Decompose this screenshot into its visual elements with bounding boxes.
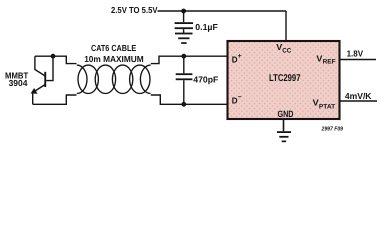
svg-text:CC: CC (282, 48, 291, 55)
ground (top, below C1) (175, 33, 193, 44)
collector lead (35, 56, 45, 76)
wire: D+ line from transistor to cable (35, 56, 77, 63)
transistor Q1 MMBT3904 (diode-connected NPN) (31, 56, 53, 104)
node: D+ junction dot (181, 54, 186, 59)
svg-text:2997 F09: 2997 F09 (321, 125, 344, 132)
svg-text:+: + (238, 53, 242, 60)
wire: cable to D- pin (151, 95, 227, 104)
svg-text:10m MAXIMUM: 10m MAXIMUM (84, 54, 144, 64)
wire: supply rail down to VCC pin (285, 11, 287, 41)
svg-text:470pF: 470pF (193, 75, 218, 85)
pin label VPTAT (313, 98, 336, 111)
svg-text:1.8V: 1.8V (347, 48, 364, 58)
label MMBT 3904 (5, 70, 29, 87)
base bar (44, 72, 46, 87)
node: D- junction dot (181, 102, 186, 107)
wire: cable to D+ pin (151, 56, 227, 63)
twisted pair cable loops (77, 65, 151, 93)
pin label D+ (232, 53, 242, 64)
wire: VREF output (341, 59, 377, 61)
svg-text:GND: GND (278, 109, 294, 119)
svg-text:REF: REF (323, 58, 336, 65)
wire: GND pin down (283, 119, 285, 131)
pin label D- (232, 94, 242, 106)
svg-text:2.5V TO 5.5V: 2.5V TO 5.5V (111, 5, 158, 15)
pin label VCC (276, 42, 291, 54)
wire: VPTAT output (341, 100, 378, 102)
capacitor C1 0.1uF (175, 11, 193, 33)
svg-text:0.1µF: 0.1µF (195, 22, 218, 32)
wire: D- line from emitter to cable (33, 95, 77, 104)
emitter lead with arrow (34, 85, 45, 92)
IC U1 LTC2997 (228, 41, 340, 119)
svg-text:LTC2997: LTC2997 (269, 73, 301, 84)
ground (bottom, IC GND) (277, 131, 291, 142)
base tie to collector node (46, 56, 53, 80)
svg-text:3904: 3904 (9, 78, 28, 88)
label CAT6 CABLE 10m MAXIMUM (84, 43, 144, 64)
pin label VREF (316, 53, 335, 65)
svg-text:4mV/K: 4mV/K (345, 91, 372, 101)
svg-text:−: − (238, 94, 242, 101)
wire: supply rail horizontal (158, 10, 287, 12)
capacitor C2 470pF (176, 56, 193, 104)
node: collector-base junction dot (51, 54, 56, 59)
svg-text:CAT6 CABLE: CAT6 CABLE (91, 43, 136, 53)
svg-text:PTAT: PTAT (319, 103, 335, 110)
node: supply junction dot (181, 9, 186, 14)
